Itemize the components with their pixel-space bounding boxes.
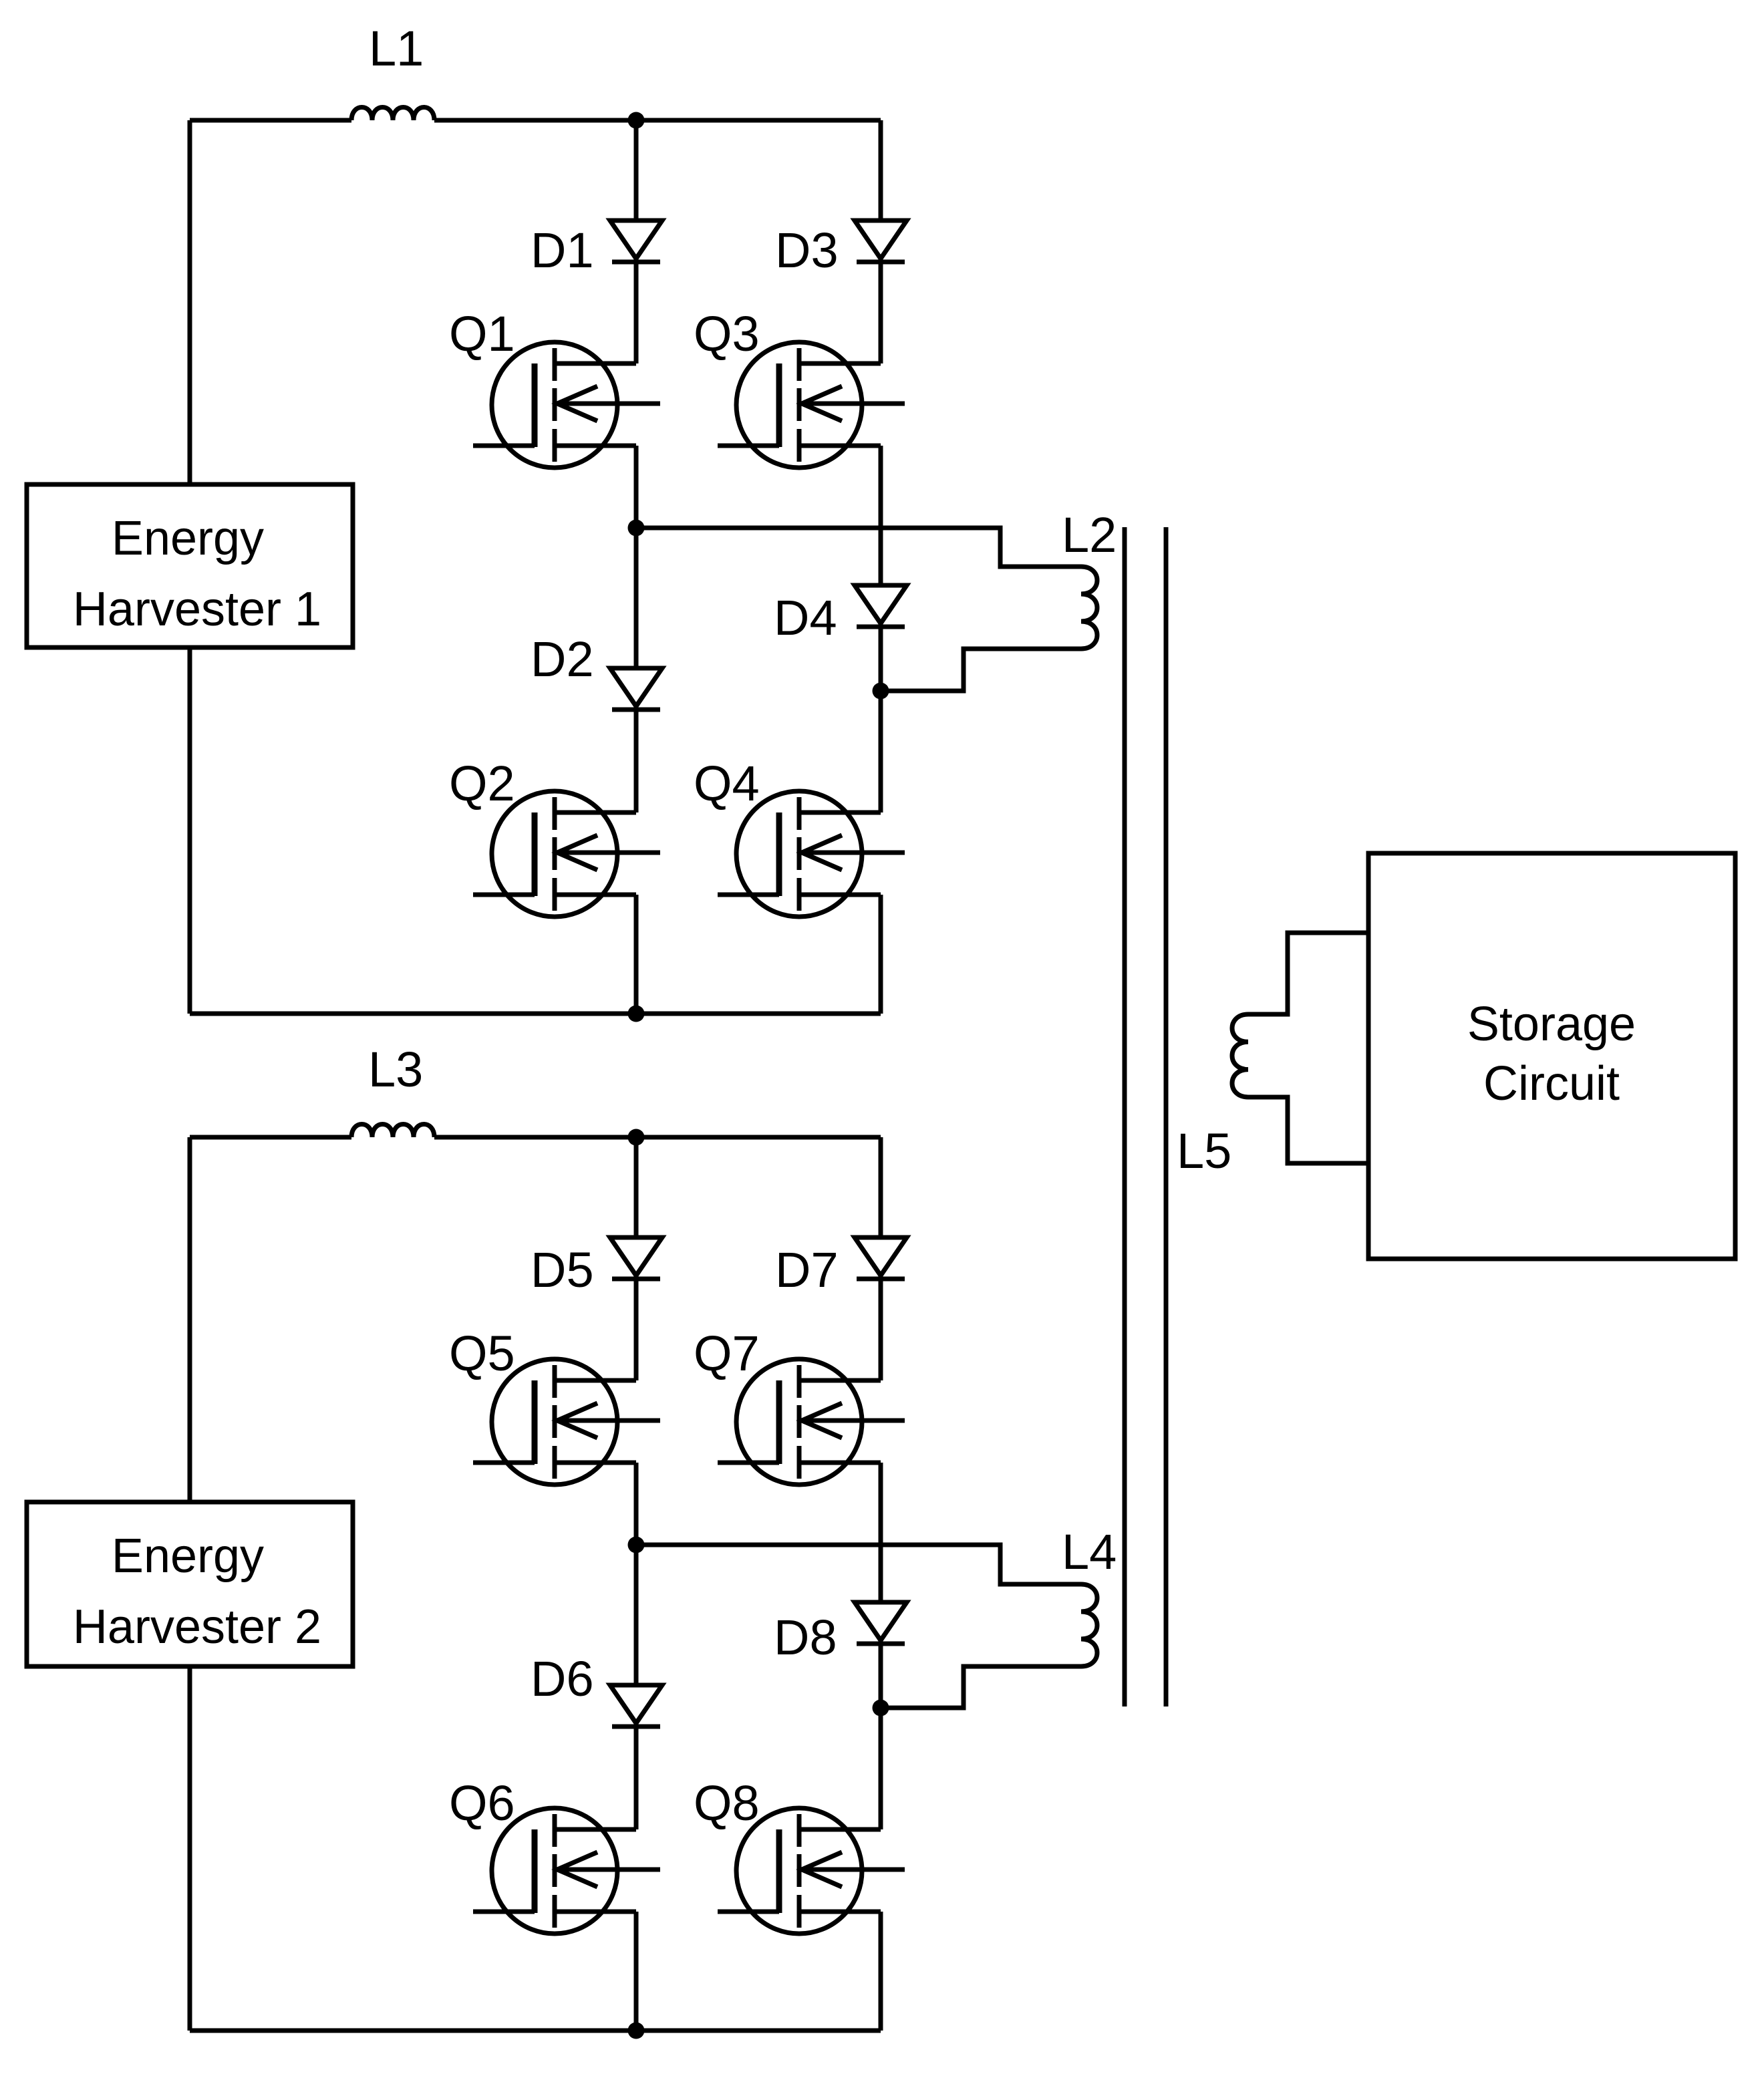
transistor Q8 — [718, 1808, 905, 1934]
diode D6 — [610, 1685, 662, 1727]
svg-text:D1: D1 — [531, 222, 594, 278]
box storage circuit — [1368, 853, 1735, 1259]
wire left loop harvester 1 upper — [188, 120, 192, 484]
transistor Q7 — [718, 1359, 905, 1485]
wire L5 top lead — [1248, 933, 1368, 1014]
inductor L3 — [351, 1125, 434, 1138]
node junction bottom rail bridge 2 — [628, 2023, 645, 2039]
svg-text:D4: D4 — [774, 590, 837, 645]
wire L2 bottom return to node A — [881, 649, 1081, 691]
diode D1 — [610, 220, 662, 262]
node B junction D8 cathode — [873, 1700, 889, 1717]
wire left loop harvester 2 lower — [188, 1666, 192, 2031]
svg-text:L3: L3 — [368, 1042, 423, 1097]
diode D3 — [855, 220, 907, 262]
box energy harvester 1 — [27, 484, 353, 647]
wire L5 bottom lead — [1248, 1097, 1368, 1163]
svg-text:L5: L5 — [1177, 1123, 1231, 1179]
svg-text:Circuit: Circuit — [1483, 1057, 1620, 1110]
diode D7 — [855, 1237, 907, 1279]
transistor Q1 — [473, 342, 660, 468]
wire L4 bottom return to node B — [881, 1666, 1081, 1708]
inductor L1 — [351, 108, 434, 121]
transformer core line right — [1164, 527, 1169, 1706]
svg-text:L4: L4 — [1062, 1524, 1117, 1580]
svg-text:Q3: Q3 — [694, 306, 760, 361]
transistor Q4 — [718, 791, 905, 917]
svg-text:D6: D6 — [531, 1651, 594, 1706]
diode D8 — [855, 1602, 907, 1644]
svg-text:Q8: Q8 — [694, 1775, 760, 1831]
transistor Q2 — [473, 791, 660, 917]
svg-text:Q6: Q6 — [449, 1775, 515, 1831]
node junction mid rail bridge 1 — [628, 520, 645, 537]
wire left loop harvester 1 lower — [188, 647, 192, 1014]
transformer core line left — [1123, 527, 1127, 1706]
node junction bottom rail bridge 1 — [628, 1006, 645, 1022]
wire left loop harvester 2 upper — [188, 1137, 192, 1502]
svg-text:Harvester 2: Harvester 2 — [73, 1600, 321, 1654]
node junction top rail bridge 1 — [628, 112, 645, 129]
svg-text:D8: D8 — [774, 1610, 837, 1665]
svg-text:D5: D5 — [531, 1242, 594, 1298]
wire right column upper segment bridge 1 — [879, 120, 883, 363]
node A junction D4 cathode — [873, 683, 889, 700]
svg-text:D7: D7 — [775, 1242, 839, 1298]
svg-text:Q7: Q7 — [694, 1326, 760, 1381]
wire top rail bridge 2 left of L3 — [190, 1135, 351, 1140]
wire bottom rail bridge 2 — [190, 2029, 881, 2033]
svg-text:Storage: Storage — [1467, 998, 1636, 1051]
box energy harvester 2 — [27, 1502, 353, 1666]
transistor Q3 — [718, 342, 905, 468]
wire top rail bridge 1 left of L1 — [190, 118, 351, 123]
diode D4 — [855, 585, 907, 627]
wire right column upper segment bridge 2 — [879, 1137, 883, 1380]
wire top rail bridge 1 right of L1 — [434, 118, 881, 123]
svg-text:Q2: Q2 — [449, 756, 515, 811]
wire top rail bridge 2 right of L3 — [434, 1135, 881, 1140]
wire right column lower segment bridge 1 — [879, 895, 883, 1014]
node junction mid rail bridge 2 — [628, 1537, 645, 1553]
svg-text:Q5: Q5 — [449, 1326, 515, 1381]
svg-text:Q1: Q1 — [449, 306, 515, 361]
node junction top rail bridge 2 — [628, 1129, 645, 1146]
wire left column lower segment bridge 2 — [634, 1912, 639, 2031]
wire left column upper segment bridge 2 — [634, 1137, 639, 1380]
wire mid rail bridge 1 to L2 top — [636, 528, 1081, 567]
wire left column middle segment bridge 1 — [634, 446, 639, 812]
diode D2 — [610, 668, 662, 710]
inductor L2 — [1081, 567, 1097, 649]
wire left column middle segment bridge 2 — [634, 1463, 639, 1829]
svg-text:D3: D3 — [775, 222, 839, 278]
svg-text:D2: D2 — [531, 631, 594, 687]
transistor Q5 — [473, 1359, 660, 1485]
inductor L5 — [1232, 1014, 1248, 1097]
diode D5 — [610, 1237, 662, 1279]
svg-text:Energy: Energy — [112, 512, 264, 565]
svg-text:Energy: Energy — [112, 1529, 264, 1583]
wire bottom rail bridge 1 — [190, 1012, 881, 1016]
wire mid rail bridge 2 to L4 top — [636, 1545, 1081, 1584]
wire right column middle segment bridge 2 — [879, 1463, 883, 1829]
transistor Q6 — [473, 1808, 660, 1934]
svg-text:Harvester 1: Harvester 1 — [73, 583, 321, 636]
svg-text:L1: L1 — [369, 21, 424, 76]
wire left column upper segment bridge 1 — [634, 120, 639, 363]
wire left column lower segment bridge 1 — [634, 895, 639, 1014]
wire right column middle segment bridge 1 — [879, 446, 883, 812]
wire right column lower segment bridge 2 — [879, 1912, 883, 2031]
svg-text:Q4: Q4 — [694, 756, 760, 811]
svg-text:L2: L2 — [1062, 507, 1117, 563]
inductor L4 — [1081, 1584, 1097, 1666]
